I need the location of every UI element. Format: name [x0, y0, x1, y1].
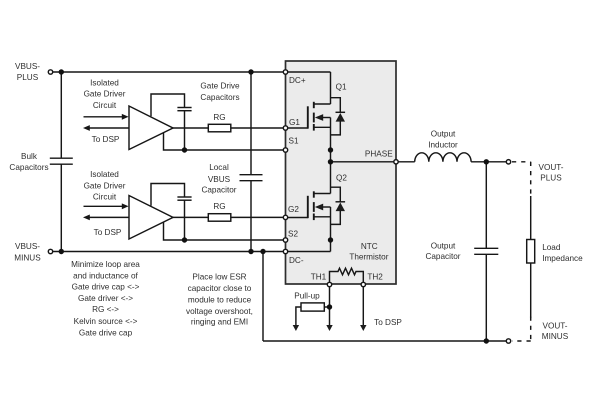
wire return drop vertical — [262, 252, 264, 342]
wire driver2 output to RG — [172, 216, 208, 218]
arrow TH2 down — [360, 325, 366, 331]
node VBUS+ local cap junction — [248, 69, 253, 74]
svg-text:Capacitor: Capacitor — [425, 252, 460, 261]
svg-text:RG: RG — [213, 113, 225, 122]
op-amp gate driver 2 — [129, 196, 173, 240]
svg-text:To DSP: To DSP — [92, 135, 120, 144]
svg-text:Gate Driver: Gate Driver — [84, 90, 126, 99]
node VBUS- local cap junction — [248, 249, 253, 254]
node Q2 source S2 junction — [328, 237, 333, 242]
wire gate drive cap 1 to S1 — [184, 111, 186, 150]
terminal VBUS-MINUS — [48, 249, 52, 253]
node gate drive cap2 S2 junction — [182, 237, 187, 242]
pin S2 — [283, 238, 287, 242]
svg-text:Gate Drive: Gate Drive — [200, 81, 240, 90]
diode body diode of Q2 — [331, 187, 346, 224]
wire driver2 input line — [84, 205, 125, 207]
svg-text:TH1: TH1 — [311, 273, 327, 282]
svg-text:Output: Output — [431, 129, 456, 138]
svg-text:Local: Local — [209, 163, 229, 172]
node PHASE junction — [328, 159, 333, 164]
svg-text:and inductance of: and inductance of — [73, 272, 138, 281]
wire VBUS- bottom rail — [53, 251, 285, 253]
pin G2 — [283, 215, 287, 219]
node pull-up TH1 junction — [327, 304, 332, 309]
node VBUS- return drop junction — [260, 249, 265, 254]
svg-text:Inductor: Inductor — [428, 140, 458, 149]
svg-text:DC+: DC+ — [289, 76, 306, 85]
svg-text:DC-: DC- — [289, 256, 304, 265]
node VBUS- bulk cap junction — [59, 249, 64, 254]
svg-text:Q2: Q2 — [336, 174, 347, 183]
terminal VOUT-MINUS — [506, 339, 510, 343]
svg-text:Isolated: Isolated — [90, 170, 119, 179]
pin TH1 — [327, 282, 331, 286]
svg-text:Circuit: Circuit — [93, 101, 117, 110]
wire dashed VOUT-MINUS stub — [512, 317, 531, 342]
arrowhead driver1 to DSP — [83, 125, 90, 131]
pin DC+ — [283, 70, 287, 74]
wire load impedance lower lead — [530, 263, 532, 318]
wire driver1 to-DSP line — [88, 127, 129, 129]
svg-text:NTC: NTC — [361, 242, 378, 251]
capacitor gate drive capacitor (driver 2) — [177, 197, 191, 200]
wire pull-up right lead — [324, 306, 329, 308]
svg-text:Isolated: Isolated — [90, 78, 119, 87]
wire dashed VOUT-PLUS stub — [512, 162, 531, 197]
svg-text:ringing and EMI: ringing and EMI — [191, 317, 248, 326]
svg-text:voltage overshoot,: voltage overshoot, — [186, 307, 253, 316]
resistor RG (driver 2) — [208, 214, 231, 222]
svg-text:RG: RG — [213, 202, 225, 211]
wire driver1 output to RG — [172, 127, 208, 129]
pin PHASE — [394, 160, 398, 164]
svg-text:VOUT-: VOUT- — [538, 163, 563, 172]
terminal VOUT-PLUS — [506, 160, 510, 164]
svg-text:Q1: Q1 — [336, 82, 347, 91]
svg-text:G1: G1 — [289, 118, 300, 127]
arrowhead driver1 input — [122, 114, 129, 120]
terminal VBUS-PLUS — [48, 70, 52, 74]
svg-text:Pull-up: Pull-up — [294, 292, 320, 301]
svg-text:S1: S1 — [289, 137, 299, 146]
svg-text:VBUS: VBUS — [208, 175, 231, 184]
capacitor local VBUS capacitor — [240, 175, 263, 181]
pin S1 — [283, 148, 287, 152]
resistor RG (driver 1) — [208, 124, 231, 132]
pin TH2 — [361, 282, 365, 286]
wire pull-up left lead — [296, 307, 301, 326]
svg-text:Output: Output — [431, 242, 456, 251]
svg-text:Thermistor: Thermistor — [349, 253, 388, 262]
pin DC- — [283, 249, 287, 253]
wire DC+ internal — [287, 71, 331, 73]
transistor Q2 — [287, 162, 331, 240]
node gate drive cap1 S1 junction — [182, 147, 187, 152]
capacitor output capacitor — [474, 248, 498, 254]
node output cap top junction — [484, 159, 489, 164]
wire driver1 kelvin return to S1 — [164, 133, 285, 150]
wire TH2 to DSP — [362, 286, 364, 326]
svg-text:Capacitors: Capacitors — [200, 93, 239, 102]
node Q1 source S1 junction — [328, 147, 333, 152]
svg-text:Bulk: Bulk — [21, 152, 38, 161]
svg-text:PHASE: PHASE — [365, 150, 393, 159]
svg-text:To DSP: To DSP — [374, 318, 402, 327]
svg-text:Gate Driver: Gate Driver — [84, 182, 126, 191]
module U1 power module body — [286, 61, 397, 284]
arrowhead driver2 to DSP — [83, 215, 90, 221]
svg-text:PLUS: PLUS — [540, 173, 562, 182]
resistor pull-up — [301, 303, 324, 311]
svg-text:MINUS: MINUS — [542, 332, 569, 341]
resistor load impedance — [527, 240, 535, 264]
svg-text:Minimize loop area: Minimize loop area — [71, 260, 140, 269]
svg-text:capacitor close to: capacitor close to — [188, 284, 252, 293]
node output cap bottom junction — [484, 338, 489, 343]
wire S2 to DC- internal — [330, 240, 332, 252]
wire driver2 supply feedback loop — [151, 184, 185, 206]
capacitor gate drive capacitor (driver 1) — [177, 108, 191, 111]
wire local VBUS capacitor branch upper — [250, 72, 252, 175]
svg-text:VBUS-: VBUS- — [15, 242, 40, 251]
wire TH1 to DSP — [329, 286, 331, 326]
inductor output inductor L — [415, 153, 471, 162]
wire RG to pin G1 — [231, 127, 284, 129]
svg-text:G2: G2 — [288, 205, 299, 214]
wire gate drive cap 2 to S2 — [184, 200, 186, 240]
transistor Q1 — [287, 72, 331, 150]
svg-text:Gate drive cap <->: Gate drive cap <-> — [72, 283, 140, 292]
svg-text:VBUS-: VBUS- — [15, 62, 40, 71]
svg-text:module to reduce: module to reduce — [188, 295, 252, 304]
wire RG to pin G2 — [231, 216, 284, 218]
wire bulk capacitor branch lower — [60, 164, 62, 251]
wire bulk capacitor branch upper — [60, 72, 62, 158]
resistor NTC thermistor — [330, 268, 364, 283]
capacitor bulk capacitors — [50, 158, 73, 164]
wire bottom return rail to VOUT-MINUS — [263, 340, 507, 342]
svg-text:S2: S2 — [288, 229, 298, 238]
svg-text:Capacitors: Capacitors — [9, 163, 48, 172]
svg-text:To DSP: To DSP — [94, 228, 122, 237]
wire driver1 supply feedback loop — [151, 94, 185, 116]
svg-text:TH2: TH2 — [367, 273, 383, 282]
svg-text:Load: Load — [542, 243, 561, 252]
wire driver2 to-DSP line — [88, 216, 129, 218]
svg-text:RG <->: RG <-> — [92, 305, 119, 314]
wire driver2 kelvin return to S2 — [164, 222, 285, 240]
wire load impedance upper lead — [530, 196, 532, 240]
node VBUS+ bulk cap junction — [59, 69, 64, 74]
arrowhead driver2 input — [122, 203, 129, 209]
wire inductor to VOUT-PLUS terminal — [471, 161, 507, 163]
wire output capacitor branch lower — [485, 254, 487, 341]
svg-text:MINUS: MINUS — [14, 253, 41, 262]
svg-text:VOUT-: VOUT- — [542, 321, 567, 330]
svg-text:Capacitor: Capacitor — [201, 186, 236, 195]
svg-text:Impedance: Impedance — [542, 254, 583, 263]
wire S1 to PHASE link — [330, 150, 332, 162]
wire DC- internal — [287, 251, 331, 253]
svg-text:PLUS: PLUS — [17, 73, 39, 82]
wire VBUS+ top rail — [53, 71, 285, 73]
op-amp gate driver 1 — [129, 106, 173, 150]
svg-text:Kelvin source <->: Kelvin source <-> — [74, 317, 138, 326]
wire PHASE internal and out to inductor — [331, 161, 415, 163]
pin G1 — [283, 126, 287, 130]
svg-text:Place low ESR: Place low ESR — [192, 273, 246, 282]
arrow TH1 down — [326, 325, 332, 331]
svg-text:Gate drive cap: Gate drive cap — [79, 329, 133, 338]
svg-text:Gate driver <->: Gate driver <-> — [78, 294, 133, 303]
wire driver1 input line — [84, 116, 125, 118]
wire output capacitor branch upper — [485, 162, 487, 249]
diode body diode of Q1 — [331, 98, 346, 135]
svg-text:Circuit: Circuit — [93, 192, 117, 201]
arrow pull-up down — [293, 325, 299, 331]
wire local VBUS capacitor branch lower — [250, 181, 252, 252]
